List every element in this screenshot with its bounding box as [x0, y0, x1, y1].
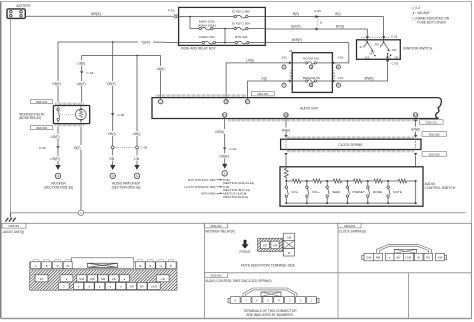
audio unit pin R top: [224, 99, 228, 103]
svg-text:ON: ON: [395, 56, 399, 59]
wire G/R(I) audio unit down: [224, 117, 226, 129]
ground bus: [10, 212, 465, 214]
svg-text:L/R(I): L/R(I): [246, 58, 254, 62]
svg-text:MTX WITHOUT ABS: MTX WITHOUT ABS: [188, 178, 216, 182]
connector C-06: [56, 146, 59, 149]
header 0920-202 clock spring: [338, 223, 361, 228]
wire row B: [190, 28, 199, 30]
resistor chain rail: [286, 180, 292, 182]
wire L/R(I) joint box to audio unit: [226, 63, 292, 99]
svg-text:SO: SO: [40, 277, 44, 281]
header 0920-301 audio unit: [2, 223, 26, 228]
svg-text:Y(E/F): Y(E/F): [141, 40, 150, 44]
svg-text:FUSE BOX COVER: FUSE BOX COVER: [418, 21, 447, 25]
svg-text:LG/R: LG/R: [405, 256, 411, 260]
wire L/B horizontal: [82, 55, 161, 57]
svg-text:L/B: L/B: [134, 157, 139, 161]
connector circle row2 left: [282, 83, 286, 87]
middle row divider: [205, 272, 472, 274]
svg-text:R/L: R/L: [426, 256, 431, 260]
svg-text:ARE INDICATED BY NUMBERS.: ARE INDICATED BY NUMBERS.: [246, 313, 293, 317]
fuse and relay box: [179, 7, 266, 45]
audio unit box: [152, 98, 441, 119]
wire G/W(I) audio unit to clock spring: [414, 120, 417, 123]
wire R/B clock spring to switch: [284, 153, 287, 156]
svg-text:B/R(E): B/R(E): [91, 12, 101, 16]
audio unit pin N bottom: [284, 113, 288, 117]
svg-text:CONTROL SWITCH: CONTROL SWITCH: [425, 186, 456, 190]
node on Y wire: [112, 41, 114, 43]
clock spring cell: connector: [362, 244, 447, 260]
svg-text:MODE: MODE: [373, 190, 382, 194]
audio amplifier off-page arrow 2: [134, 165, 139, 170]
wire L/R(R) to woofer: [57, 149, 59, 156]
svg-text:B/Y(I): B/Y(I): [336, 25, 344, 29]
svg-text:R/B(I): R/B(I): [282, 128, 290, 132]
wire Y(E/F) fuse box to left: [58, 41, 138, 43]
svg-text:G/R(I): G/R(I): [215, 130, 224, 134]
battery B+: [7, 4, 32, 18]
svg-text:B/Y(F): B/Y(F): [291, 25, 300, 29]
svg-text:L/R(F): L/R(F): [50, 135, 59, 139]
svg-text:IGNITION SWITCH: IGNITION SWITCH: [403, 47, 433, 51]
table top border: [1, 222, 472, 224]
svg-text:0920-205: 0920-205: [211, 274, 223, 278]
woofer relay box: [53, 106, 89, 124]
svg-text:J-02: J-02: [337, 56, 343, 60]
wire battery negative to ground bus: [9, 18, 11, 212]
wire L/B(F) to woofer relay: [81, 74, 83, 81]
audio control switch box: [280, 167, 423, 206]
svg-text:IG KEY2 30A: IG KEY2 30A: [232, 22, 251, 26]
wire B/R(E) battery to F-01: [25, 15, 174, 17]
joint box edge ticks: [290, 71, 292, 80]
wire Y/B(F) down to woofer relay: [57, 42, 59, 81]
svg-text:ACC: ACC: [365, 56, 370, 59]
svg-text:B/Y: B/Y: [397, 256, 401, 260]
svg-text:0920-202: 0920-202: [344, 224, 356, 228]
resistor 6: [398, 179, 406, 183]
svg-text:CLOCK SPRING: CLOCK SPRING: [338, 143, 363, 147]
svg-text:L3 ATX WITHOUT ABS: L3 ATX WITHOUT ABS: [184, 185, 215, 189]
wire Y/B to amplifier: [112, 149, 114, 156]
svg-text:W/R(F): W/R(F): [292, 38, 302, 42]
svg-text:B(I): B(I): [335, 12, 340, 16]
wire G/W clock spring to switch: [414, 153, 417, 156]
woofer relay labels: [30, 100, 52, 104]
svg-text:F-01: F-01: [168, 8, 175, 12]
svg-text:1A: 1A: [414, 113, 417, 117]
connector C-02 top: [361, 37, 390, 39]
table right border: [471, 223, 473, 318]
ground: [5, 213, 15, 222]
woofer relay top comb: [56, 103, 84, 105]
svg-text:Y/B(I): Y/B(I): [107, 132, 115, 136]
svg-text:O: O: [63, 285, 65, 289]
svg-text:ST: ST: [360, 46, 364, 49]
svg-text:(SECTION 0414-a): (SECTION 0414-a): [223, 195, 249, 199]
wire R/B dashed through clock spring: [285, 139, 287, 149]
svg-text:VOL+: VOL+: [312, 190, 320, 194]
svg-text:G: G: [160, 264, 162, 268]
relay coil: [80, 106, 82, 110]
svg-text:E: E: [338, 65, 340, 69]
svg-text:O(I): O(I): [261, 77, 267, 81]
svg-text:IG1: IG1: [375, 43, 380, 46]
ground connector circle 1: [78, 210, 83, 215]
clock spring box: [281, 139, 421, 149]
svg-text:G/W(I): G/W(I): [411, 128, 420, 132]
svg-text:R: R: [57, 264, 59, 268]
wire B/W(I) ignition to joint box: [332, 63, 387, 81]
svg-text:D: D: [337, 83, 339, 87]
destination text block: [184, 178, 254, 199]
wire G/R(F): [224, 150, 226, 153]
wire R/B(I) audio unit to clock spring: [285, 117, 287, 127]
svg-text:L/B(I): L/B(I): [157, 67, 165, 71]
wire chain end to rail: [415, 181, 417, 203]
svg-text:N: N: [136, 174, 138, 178]
svg-text:Y/B: Y/B: [109, 157, 114, 161]
hatched terminal band: [30, 270, 177, 290]
switch MODE: [367, 181, 382, 204]
wire B(F)/B(I) fuse box to ignition switch: [265, 16, 383, 18]
audio unit pin V bottom: [223, 113, 227, 117]
svg-text:L/B: L/B: [287, 235, 291, 239]
svg-text:OFF: OFF: [370, 53, 375, 56]
svg-text:C-09: C-09: [141, 146, 148, 150]
svg-text:WITH ABS: WITH ABS: [201, 191, 215, 195]
resistor 2: [313, 179, 321, 183]
svg-text:MIRROR 5A: MIRROR 5A: [303, 76, 321, 80]
audio unit pin A bottom: [413, 113, 417, 117]
wire vertical to row C: [224, 29, 226, 43]
svg-text:( ) L3: ( ) L3: [413, 6, 421, 10]
svg-text:L/B(F): L/B(F): [77, 82, 86, 86]
svg-text:WOOFER RELAY(F): WOOFER RELAY(F): [205, 229, 235, 233]
legend: [413, 6, 450, 24]
connector C-08: [111, 113, 114, 116]
svg-text:C-04: C-04: [230, 147, 237, 151]
audio control switch cell: connector: [228, 288, 319, 317]
svg-text:0920-302: 0920-302: [36, 126, 48, 130]
svg-text:R/B: R/B: [90, 277, 95, 281]
switch MUTE: [387, 181, 402, 204]
svg-text:NOTE:SEEN FROM TERMINAL SIDE.: NOTE:SEEN FROM TERMINAL SIDE.: [241, 264, 296, 268]
woofer relay bottom comb: [56, 124, 84, 126]
svg-text:B: B: [46, 264, 48, 268]
wire L/B to amplifier: [136, 149, 138, 156]
svg-text:OFF: OFF: [392, 49, 397, 52]
table column divider 2: [337, 223, 339, 318]
svg-text:(BOSE RELAY): (BOSE RELAY): [19, 116, 41, 120]
svg-text:V/W: V/W: [438, 256, 443, 260]
svg-text:1V: 1V: [223, 113, 226, 117]
connector circle row1 left: [282, 65, 286, 69]
wire L/B down to audio amplifier: [136, 56, 138, 132]
switch VOL+: [306, 181, 320, 204]
svg-text:Y/B: Y/B: [273, 244, 277, 248]
svg-text:LG/R: LG/R: [151, 285, 157, 289]
svg-text:CLOCK SPRING(I): CLOCK SPRING(I): [339, 229, 366, 233]
connector C-02 bottom: [386, 60, 389, 63]
svg-text:B/W(I): B/W(I): [364, 77, 373, 81]
wire L/B(I) down to C-04: [81, 56, 83, 61]
switch PRESET: [346, 181, 365, 204]
svg-text:0920-201: 0920-201: [257, 92, 269, 96]
svg-text:C-05: C-05: [314, 9, 321, 13]
svg-text:AUDIO CONTROL SWITCH(CLOCK SPR: AUDIO CONTROL SWITCH(CLOCK SPRING): [205, 279, 271, 283]
svg-text:B: B: [170, 264, 172, 268]
woofer relay cell: front arrow: [240, 240, 251, 254]
svg-text:ROOM 15A: ROOM 15A: [303, 56, 320, 60]
resistor 3: [333, 179, 341, 183]
connector circle row2 right: [336, 83, 340, 87]
resistor 1: [293, 179, 301, 183]
svg-text:R/B: R/B: [376, 256, 381, 260]
svg-text:B(F): B(F): [293, 12, 299, 16]
svg-text:Y/B(F): Y/B(F): [52, 82, 61, 86]
svg-text:J-B: J-B: [289, 49, 293, 53]
svg-text:B: B: [320, 20, 322, 24]
svg-text:1N: 1N: [284, 113, 287, 117]
svg-text:C-02: C-02: [391, 35, 398, 39]
wire row A inside fuse box: [179, 16, 234, 18]
svg-text:FRONT: FRONT: [240, 250, 251, 254]
svg-text:G/W: G/W: [366, 256, 372, 260]
connector circle row1 right: [336, 65, 340, 69]
svg-text:1F: 1F: [246, 100, 249, 104]
svg-text:PRESET: PRESET: [353, 190, 365, 194]
header 0920-302 woofer relay: [205, 223, 228, 228]
svg-text:0920-302: 0920-302: [36, 100, 48, 104]
svg-text:BATTERY: BATTERY: [17, 4, 32, 8]
svg-text:J-01: J-01: [337, 76, 343, 80]
svg-text:L/R: L/R: [161, 277, 165, 281]
pin cells right W R G B: [135, 262, 176, 269]
audio unit pin U top: [158, 99, 162, 103]
svg-text:J-01: J-01: [281, 56, 287, 60]
svg-text:MUTE: MUTE: [393, 190, 402, 194]
wire B(F) relay coil to ground: [80, 127, 82, 145]
svg-text:1R: 1R: [224, 100, 227, 104]
svg-text:C-08: C-08: [118, 113, 125, 117]
joint box J/B: [292, 53, 332, 93]
ignition switch: [357, 40, 401, 60]
svg-text:● : VACANT: ● : VACANT: [413, 11, 430, 15]
svg-text:G/R(F): G/R(F): [219, 155, 229, 159]
woofer relay cell: connector: [258, 233, 295, 256]
off-page arrow to PCM: [222, 164, 227, 169]
wire vertical B(I) into ignition switch: [383, 17, 385, 40]
pin cells left G B R W: [31, 262, 73, 269]
svg-text:C-06: C-06: [39, 146, 46, 150]
wire L/R(F) relay to C-06: [57, 127, 59, 134]
svg-text:B(F): B(F): [74, 146, 80, 150]
wire B/Y(F)/B/Y(I): [265, 28, 367, 30]
svg-text:(SECTION 0920-3a): (SECTION 0920-3a): [112, 186, 141, 190]
common rail: [286, 202, 415, 204]
audio unit bottom comb 0920-301: [228, 119, 418, 121]
audio unit pin F top: [245, 99, 249, 103]
svg-text:AUDIO 15A: AUDIO 15A: [199, 35, 216, 39]
svg-text:ACC: ACC: [386, 56, 391, 59]
wire vertical W/R(F) to joint box J-02: [332, 43, 348, 63]
bottom right divider: [408, 273, 410, 319]
wire L/B(I) up from audio unit: [160, 56, 162, 100]
svg-text:0920-301: 0920-301: [9, 224, 21, 228]
svg-text:G: G: [35, 264, 37, 268]
connector body top outline: [30, 262, 177, 269]
svg-text:B/Y: B/Y: [140, 285, 144, 289]
svg-text:Y/B(F): Y/B(F): [106, 82, 115, 86]
wire W/R(F): [265, 42, 349, 44]
svg-text:L/B(I): L/B(I): [77, 61, 85, 65]
svg-text:0920-202: 0920-202: [429, 132, 441, 136]
switch SEEK: [326, 181, 341, 204]
relay switch contact: [57, 106, 59, 109]
pin number tabs: [33, 260, 174, 262]
svg-text:C-04: C-04: [87, 71, 94, 75]
terminal cells lower row: [59, 283, 161, 290]
wire O(I) joint box to audio unit: [248, 81, 293, 99]
wire vertical B/Y(I) into ignition switch: [366, 29, 368, 40]
connector C-09: [111, 146, 114, 149]
svg-text:B: B: [288, 251, 290, 255]
wire Y/B(I) amplifier branch labels: [104, 131, 121, 136]
svg-text:BTN 40A: BTN 40A: [235, 35, 248, 39]
svg-text:0920-301: 0920-301: [426, 121, 438, 125]
header 0920-205 audio control switch: [205, 273, 228, 278]
audio amplifier off-page arrow 1: [110, 165, 115, 170]
svg-text:G/R: G/R: [101, 277, 106, 281]
svg-text:M: M: [112, 174, 114, 178]
svg-text:B: B: [418, 256, 420, 260]
svg-text:0920-302: 0920-302: [211, 224, 223, 228]
clock spring bottom comb: [287, 150, 414, 152]
resistor 5: [374, 179, 382, 183]
svg-text:FUSE AND RELAY BOX: FUSE AND RELAY BOX: [181, 46, 216, 50]
label 0920-202: [422, 132, 447, 137]
wire G/W dashed through clock spring: [415, 139, 417, 149]
svg-text:L/R: L/R: [263, 244, 267, 248]
clock spring top comb: [287, 136, 414, 138]
svg-text:AUDIO UNIT(I): AUDIO UNIT(I): [3, 230, 24, 234]
wire vertical node to row B: [189, 17, 191, 29]
terminal cells upper row: [35, 275, 169, 282]
svg-text:G/W: G/W: [79, 277, 85, 281]
bowtie: [87, 263, 117, 267]
svg-text:L/R(R): L/R(R): [50, 157, 59, 161]
audio unit top comb 0920-201: [156, 94, 247, 96]
resistor 4: [354, 179, 362, 183]
center raised housing: [71, 258, 134, 269]
svg-text:SEEK: SEEK: [332, 190, 341, 194]
svg-text:AUDIO UNIT: AUDIO UNIT: [300, 106, 318, 110]
audio unit connector drawing: [30, 258, 177, 290]
svg-text:L/B: L/B: [112, 277, 116, 281]
resistor vertical at entry: [284, 167, 288, 181]
switch VOL-: [285, 181, 298, 204]
svg-text:(SECTION 0920-3a): (SECTION 0920-3a): [44, 186, 73, 190]
table bottom border: [1, 318, 472, 320]
svg-text:U: U: [160, 100, 162, 104]
svg-text:G/R: G/R: [129, 285, 134, 289]
woofer off-page arrow: [55, 165, 60, 170]
label 0920-205: [422, 152, 447, 157]
svg-text:R: R: [149, 264, 151, 268]
svg-text:C-02: C-02: [392, 61, 399, 65]
wire Y/B down to audio amplifier: [112, 42, 114, 81]
chain nodes: [285, 180, 287, 182]
svg-text:VOL-: VOL-: [291, 190, 298, 194]
node dot: [189, 16, 191, 18]
svg-text:0920-205: 0920-205: [429, 152, 441, 156]
connector C-04 lower: [223, 147, 226, 150]
svg-text:L/B(I): L/B(I): [133, 132, 141, 136]
wire row C: [179, 42, 202, 44]
svg-text:(MAIN 100A): (MAIN 100A): [198, 23, 216, 27]
svg-text:IG KEY1 40A: IG KEY1 40A: [232, 10, 251, 14]
connector C-04: [80, 71, 83, 74]
svg-text:V: V: [283, 83, 285, 87]
table column divider 1: [204, 223, 206, 318]
